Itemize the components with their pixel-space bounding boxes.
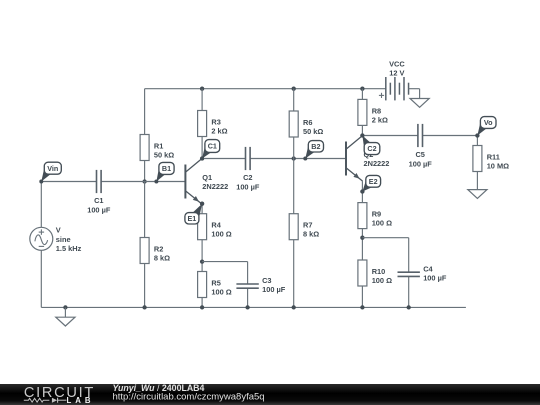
wire branch to C4: [362, 238, 408, 273]
svg-text:R8: R8: [372, 106, 381, 115]
junction Vo node: [475, 133, 479, 137]
svg-text:2 kΩ: 2 kΩ: [211, 127, 227, 136]
wire R6 bottom to B2 node: [293, 137, 295, 159]
resistor R1: [140, 135, 174, 161]
svg-text:12 V: 12 V: [389, 69, 404, 78]
junction top rail / R6: [292, 87, 296, 91]
svg-text:sine: sine: [56, 235, 71, 244]
junction top rail / R3: [200, 87, 204, 91]
wire R6 top to rail: [293, 89, 295, 111]
node C2 label: [360, 134, 379, 155]
svg-text:100 µF: 100 µF: [87, 205, 111, 214]
svg-text:C2: C2: [367, 144, 376, 153]
svg-text:V: V: [56, 226, 61, 235]
junction top rail / R8: [360, 87, 364, 91]
resistor R4: [198, 214, 232, 240]
wire R10 bottom to ground rail: [361, 286, 363, 307]
svg-text:100 µF: 100 µF: [409, 159, 433, 168]
svg-text:B2: B2: [311, 142, 320, 151]
svg-text:C1: C1: [208, 142, 217, 151]
capacitor C2: [236, 147, 260, 191]
svg-text:100 µF: 100 µF: [423, 273, 447, 282]
svg-text:B1: B1: [162, 164, 171, 173]
svg-text:E2: E2: [369, 177, 378, 186]
svg-text:8 kΩ: 8 kΩ: [154, 254, 170, 263]
junction C2 node: [360, 133, 364, 137]
wire R7 top to B2 node: [293, 159, 295, 214]
svg-text:100 µF: 100 µF: [236, 182, 260, 191]
junction ground rail / R7: [292, 305, 296, 309]
capacitor C5: [409, 124, 433, 168]
svg-text:R10: R10: [372, 267, 386, 276]
svg-text:http://circuitlab.com/czcmywa8: http://circuitlab.com/czcmywa8yfa5q: [113, 392, 265, 403]
wire R7 bottom to ground rail: [293, 240, 295, 308]
svg-text:C1: C1: [94, 196, 103, 205]
svg-text:50 kΩ: 50 kΩ: [154, 151, 174, 160]
svg-text:10 MΩ: 10 MΩ: [487, 162, 509, 171]
transistor Q2 (label partly hidden): [346, 136, 389, 182]
capacitor C4: [398, 264, 447, 282]
junction ground rail / R10: [360, 305, 364, 309]
junction E2 node: [360, 189, 364, 193]
svg-text:R3: R3: [211, 117, 220, 126]
svg-text:VCC: VCC: [389, 59, 405, 68]
svg-text:R6: R6: [303, 118, 312, 127]
svg-text:100 Ω: 100 Ω: [211, 288, 231, 297]
junction E1 node: [200, 202, 204, 206]
svg-text:1.5 kHz: 1.5 kHz: [56, 244, 82, 253]
svg-text:Q1: Q1: [202, 173, 212, 182]
svg-text:LAB: LAB: [67, 396, 95, 405]
node Vo label: [475, 117, 496, 138]
wire R1 bottom to base node: [144, 161, 146, 182]
junction C1 node: [200, 156, 204, 160]
node Vin label: [39, 162, 61, 183]
wire V source top: [40, 182, 42, 228]
svg-text:100 Ω: 100 Ω: [372, 276, 392, 285]
junction R4/R5/C3 node: [200, 259, 204, 263]
svg-text:50 kΩ: 50 kΩ: [303, 127, 323, 136]
wire R4 bottom to R5 top: [201, 240, 203, 272]
svg-text:R5: R5: [211, 278, 220, 287]
wire battery to ground bend: [409, 89, 420, 99]
wire R3 top to rail: [201, 89, 203, 111]
resistor R10: [358, 260, 392, 286]
wire R8 top to rail: [361, 89, 363, 100]
svg-text:C4: C4: [423, 264, 433, 273]
wire base row: Vin to C1: [41, 181, 96, 183]
node E1 label: [185, 202, 204, 224]
voltage source V1 sine: [30, 226, 82, 253]
wire base row: C1 to Q1 base: [101, 181, 185, 183]
wire collector row 2: C2 node to C5: [362, 135, 418, 137]
junction ground rail / R5: [200, 305, 204, 309]
wire R2 bottom to ground rail: [144, 264, 146, 308]
wire V source bottom: [40, 250, 42, 307]
wire collector row: C2 to Q2 base: [250, 158, 346, 160]
footer bar: [0, 384, 540, 405]
junction R6/R7/B2 node: [292, 156, 296, 160]
wire E2 to R9: [361, 181, 363, 202]
svg-text:C2: C2: [243, 173, 252, 182]
wire C5 to Vo node: [423, 135, 478, 137]
junction ground rail / ground stem: [63, 305, 67, 309]
resistor R7: [289, 214, 319, 240]
node B1 label: [154, 162, 174, 183]
node C1 label: [200, 140, 220, 161]
wire R11 bottom to ground: [476, 172, 478, 190]
svg-text:Vin: Vin: [47, 164, 58, 173]
svg-text:100 Ω: 100 Ω: [372, 219, 392, 228]
wire branch to C3: [202, 262, 248, 284]
wire R5 bottom to ground rail: [201, 298, 203, 308]
resistor R8: [358, 99, 388, 125]
ground for R11: [468, 190, 487, 199]
wire C4 bottom to ground rail: [408, 276, 410, 307]
junction ground rail / C3: [245, 305, 249, 309]
wire R9 bottom to R10 top: [361, 229, 363, 260]
battery V2 VCC: [379, 59, 409, 100]
wire R3 bottom to collector node C1: [201, 137, 203, 159]
svg-text:C5: C5: [415, 150, 424, 159]
resistor R9: [358, 203, 392, 229]
svg-text:R7: R7: [303, 221, 312, 230]
svg-text:100 Ω: 100 Ω: [211, 230, 231, 239]
wire C3 bottom to ground rail: [247, 288, 249, 307]
ground bottom left: [56, 307, 75, 326]
wire bottom ground rail: [41, 306, 466, 308]
resistor R3: [198, 111, 228, 137]
transistor Q1: [185, 159, 228, 205]
capacitor C1: [87, 170, 111, 214]
wire R8 bottom to collector node C2: [361, 125, 363, 135]
svg-text:2N2222: 2N2222: [364, 159, 390, 168]
svg-text:Vo: Vo: [484, 118, 493, 127]
CircuitLab logo wordmark: [24, 385, 95, 405]
svg-text:R2: R2: [154, 244, 163, 253]
resistor R2: [140, 238, 170, 264]
wire R11 top: [476, 136, 478, 146]
resistor R5: [198, 272, 232, 298]
svg-text:8 kΩ: 8 kΩ: [303, 230, 319, 239]
svg-text:2N2222: 2N2222: [202, 182, 228, 191]
svg-text:E1: E1: [188, 214, 197, 223]
junction B1 node: [142, 179, 146, 183]
svg-text:100 µF: 100 µF: [262, 285, 286, 294]
node B2 label: [303, 141, 323, 161]
svg-text:2 kΩ: 2 kΩ: [372, 115, 388, 124]
svg-text:R1: R1: [154, 141, 163, 150]
wire collector row: C1 node to C2: [202, 158, 245, 160]
footer author / url text: [113, 383, 265, 403]
wire E1 to R4: [201, 204, 203, 214]
resistor R6: [289, 111, 323, 137]
svg-text:R9: R9: [372, 210, 381, 219]
wire R1 top to rail: [144, 89, 146, 135]
ground for battery: [410, 99, 429, 108]
junction ground rail / C4: [407, 305, 411, 309]
wire R2 top: [144, 182, 146, 238]
node E2 label: [360, 175, 380, 193]
junction R9/R10/C4 node: [360, 236, 364, 240]
resistor R11: [473, 146, 509, 172]
svg-text:R11: R11: [487, 152, 500, 161]
capacitor C3: [236, 276, 285, 294]
svg-text:R4: R4: [211, 221, 221, 230]
svg-text:C3: C3: [262, 276, 271, 285]
wire top supply rail: [145, 88, 386, 90]
junction ground rail / R2: [142, 305, 146, 309]
